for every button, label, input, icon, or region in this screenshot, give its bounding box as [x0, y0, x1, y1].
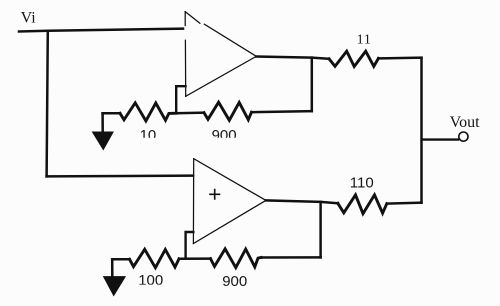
wire input from Vi to op-amp U1 — [19, 29, 183, 32]
svg-text:110: 110 — [350, 174, 374, 191]
wire U2 feedback horizontal — [261, 256, 321, 259]
resistor 10 — [120, 103, 176, 121]
resistor 100 — [130, 249, 180, 267]
wire between resistor 10 and resistor 900 — [176, 111, 204, 114]
svg-text:Vi: Vi — [21, 10, 37, 27]
wire to op-amp U2 non-inverting input — [47, 174, 193, 177]
wire resistor 900 to feedback vertical — [252, 111, 312, 112]
resistor 900 bottom — [211, 249, 262, 268]
ground (bottom) — [104, 259, 126, 295]
wire U1 inverting input stub — [176, 86, 185, 113]
op-amp U2 — [193, 159, 266, 244]
wire right rail vertical — [420, 58, 423, 203]
svg-text:900: 900 — [212, 127, 237, 144]
wire U2 output — [266, 200, 338, 203]
wire between resistor 100 and resistor 900 bottom — [179, 257, 211, 260]
wire U1 feedback bottom rail — [103, 112, 120, 115]
resistor 900 top — [204, 102, 252, 120]
svg-text:10: 10 — [140, 127, 157, 144]
resistor 110 — [338, 195, 387, 214]
wire ground corner to resistor 100 — [112, 258, 129, 261]
wire U2 inverting input stub — [186, 232, 194, 258]
svg-text:900: 900 — [222, 273, 247, 290]
op-amp U2 plus marking — [210, 190, 220, 199]
svg-text:100: 100 — [138, 272, 163, 289]
wire U2 feedback vertical — [319, 202, 322, 258]
op-amp U1 — [185, 12, 256, 97]
wire U1 output — [256, 57, 329, 59]
node A input junction — [47, 31, 48, 177]
wire resistor 11 to right rail — [378, 56, 421, 59]
wire resistor 110 to right rail — [387, 203, 422, 204]
resistor 11 — [329, 51, 378, 66]
svg-text:11: 11 — [357, 32, 372, 47]
wire feedback vertical right of U1 — [311, 58, 314, 112]
ground (top) — [93, 113, 114, 149]
wire output tap to terminal — [422, 138, 458, 140]
output terminal circle — [459, 132, 468, 141]
svg-text:Vout: Vout — [450, 114, 480, 131]
